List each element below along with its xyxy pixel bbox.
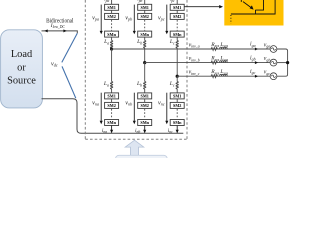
inductor Lb lower arm <box>144 82 146 90</box>
svg-text:La: La <box>103 39 109 45</box>
svg-text:SMn: SMn <box>140 32 149 37</box>
wire and arm current arrow i_nc <box>176 126 178 133</box>
dashed converter boundary right edge <box>186 0 188 139</box>
wire inductor to SM1 lower phase c <box>176 89 178 93</box>
svg-text:SM2: SM2 <box>141 103 149 108</box>
submodule SM1 lower arm phase b <box>138 93 152 99</box>
arm voltage arrow v_pa <box>100 5 102 31</box>
wire leg midsection phase b <box>144 63 146 82</box>
wire top feed leg phase b <box>144 0 146 4</box>
submodule SM1 upper arm phase b <box>138 4 152 10</box>
submodule SM2 upper arm phase b <box>138 13 152 19</box>
grid current arrow i_ga <box>255 48 258 51</box>
dashed continuation wire upper arm phase b <box>144 20 146 31</box>
submodule SM2 upper arm phase a <box>105 13 119 19</box>
AC source v_gc <box>270 73 277 80</box>
svg-text:SM2: SM2 <box>107 14 115 19</box>
control block (clipped at bottom) <box>116 155 168 167</box>
wire leg midsection phase c <box>176 76 178 81</box>
wire between SM1 and SM2 lower arm phase a <box>111 99 113 103</box>
detail box: emitter wire <box>255 10 257 14</box>
load/source block <box>1 30 43 108</box>
dashed continuation wire upper arm phase a <box>111 20 113 31</box>
svg-text:SM1: SM1 <box>173 94 181 99</box>
svg-text:SM1: SM1 <box>141 5 149 10</box>
svg-text:Source: Source <box>7 76 36 87</box>
wire inductor to SM1 lower phase b <box>144 89 146 93</box>
svg-text:SM2: SM2 <box>173 103 181 108</box>
submodule SMn upper arm phase b <box>138 31 152 37</box>
dashed continuation wire lower arm phase a <box>111 109 113 119</box>
inductor Lsys phase b <box>220 61 228 63</box>
junction node phase b <box>143 61 146 64</box>
junction node phase a <box>110 47 113 50</box>
vdc leader line lower (blue) <box>62 66 76 98</box>
svg-text:Lb: Lb <box>136 39 142 45</box>
detail box: dotted leader <box>230 15 232 24</box>
svg-text:ipa: ipa <box>104 0 109 3</box>
svg-text:SMn: SMn <box>140 120 149 125</box>
block arrow up (control link) <box>125 140 144 155</box>
svg-text:SM2: SM2 <box>141 14 149 19</box>
phase output wire phase c <box>177 75 270 77</box>
detail box: collector step wire <box>256 0 264 10</box>
inductor Lsys phase a <box>220 47 228 49</box>
svg-text:SMn: SMn <box>107 120 116 125</box>
svg-text:SMn: SMn <box>107 32 116 37</box>
svg-text:Lc: Lc <box>169 39 175 45</box>
arm voltage arrow v_pb <box>133 5 135 31</box>
svg-text:SM2: SM2 <box>107 103 115 108</box>
submodule SM2 lower arm phase b <box>138 102 152 108</box>
wire between SM1 and SM2 upper arm phase c <box>176 10 178 13</box>
neutral junction node <box>286 61 289 64</box>
wire inductor to junction phase c <box>176 48 178 76</box>
dashed converter boundary left edge <box>84 0 86 139</box>
wire bottom DC rail <box>42 99 184 134</box>
neutral bus wire right <box>277 49 288 76</box>
phase output wire phase b <box>145 62 271 64</box>
dashed converter boundary bottom edge <box>85 138 187 140</box>
svg-text:SMn: SMn <box>173 32 182 37</box>
submodule detail box (orange, clipped at top) <box>224 0 283 26</box>
grid current arrow i_gb <box>255 61 258 64</box>
wire between SM1 and SM2 lower arm phase b <box>144 99 146 103</box>
arm voltage arrow v_nc <box>166 93 168 121</box>
arm voltage arrow v_na <box>100 93 102 121</box>
submodule SM2 lower arm phase a <box>105 102 119 108</box>
submodule SMn lower arm phase a <box>105 120 119 126</box>
bidirectional arrowheads on DC rail <box>44 29 47 32</box>
svg-text:SM1: SM1 <box>173 5 181 10</box>
inductor La lower arm <box>110 82 112 90</box>
submodule SM2 lower arm phase c <box>170 102 184 108</box>
submodule SM1 lower arm phase a <box>105 93 119 99</box>
detail box: bottom rail wire <box>231 0 275 14</box>
wire between SM1 and SM2 upper arm phase a <box>111 10 113 13</box>
resistor Rsys phase a <box>211 47 218 50</box>
submodule SMn lower arm phase b <box>138 120 152 126</box>
junction node phase c <box>176 75 179 78</box>
wire top feed leg phase c <box>176 0 178 4</box>
inductor Lb upper arm <box>144 41 146 49</box>
arm voltage arrow v_pc <box>166 5 168 31</box>
inductor La upper arm <box>110 41 112 49</box>
submodule SMn upper arm phase a <box>105 31 119 37</box>
submodule SMn upper arm phase c <box>170 31 184 37</box>
grid current arrow i_gc <box>255 75 258 78</box>
wire and arm current arrow i_na <box>111 126 113 133</box>
submodule SM1 lower arm phase c <box>170 93 184 99</box>
AC source v_gb <box>270 59 277 66</box>
svg-text:Lc: Lc <box>169 81 175 87</box>
resistor Rsys phase b <box>211 61 218 64</box>
dashed continuation wire lower arm phase c <box>176 109 178 119</box>
submodule SM1 upper arm phase c <box>170 4 184 10</box>
svg-text:La: La <box>103 81 109 87</box>
wire SMn to inductor upper phase a <box>111 37 113 40</box>
arm voltage arrow v_nb <box>133 93 135 121</box>
phase output wire phase a <box>112 48 271 50</box>
detail box: IGBT diagonal arrow <box>240 0 242 2</box>
wire between SM1 and SM2 upper arm phase b <box>144 10 146 13</box>
vdc leader line upper (blue) <box>62 33 78 62</box>
svg-text:Load: Load <box>11 49 33 60</box>
inductor Lc lower arm <box>176 82 178 90</box>
inductor Lc upper arm <box>176 41 178 49</box>
callout arrow SM1 to detail box <box>184 6 219 8</box>
inductor Lsys phase c <box>220 74 228 76</box>
svg-text:SMn: SMn <box>173 120 182 125</box>
wire between SM1 and SM2 lower arm phase c <box>176 99 178 103</box>
svg-text:ipb: ipb <box>137 0 142 3</box>
wire and arm current arrow i_nb <box>144 126 146 133</box>
wire inductor to junction phase b <box>144 48 146 63</box>
submodule SM1 upper arm phase a <box>105 4 119 10</box>
wire inductor to SM1 lower phase a <box>111 89 113 93</box>
dashed continuation wire lower arm phase b <box>144 109 146 119</box>
wire leg midsection phase a <box>111 49 113 82</box>
svg-text:SM2: SM2 <box>173 14 181 19</box>
dashed continuation wire upper arm phase c <box>176 20 178 31</box>
svg-text:SM1: SM1 <box>107 94 115 99</box>
resistor Rsys phase c <box>211 75 218 78</box>
neutral bus wire row b <box>277 62 288 64</box>
submodule SMn lower arm phase c <box>170 120 184 126</box>
wire SMn to inductor upper phase b <box>144 37 146 40</box>
wire SMn to inductor upper phase c <box>176 37 178 40</box>
svg-text:or: or <box>17 62 26 73</box>
svg-text:Lb: Lb <box>136 81 142 87</box>
AC source v_ga <box>270 46 277 53</box>
svg-text:SM1: SM1 <box>107 5 115 10</box>
submodule SM2 upper arm phase c <box>170 13 184 19</box>
svg-text:SM1: SM1 <box>141 94 149 99</box>
wire top DC rail <box>42 31 78 33</box>
svg-text:ipc: ipc <box>170 0 175 3</box>
wire top feed leg phase a <box>111 0 113 4</box>
